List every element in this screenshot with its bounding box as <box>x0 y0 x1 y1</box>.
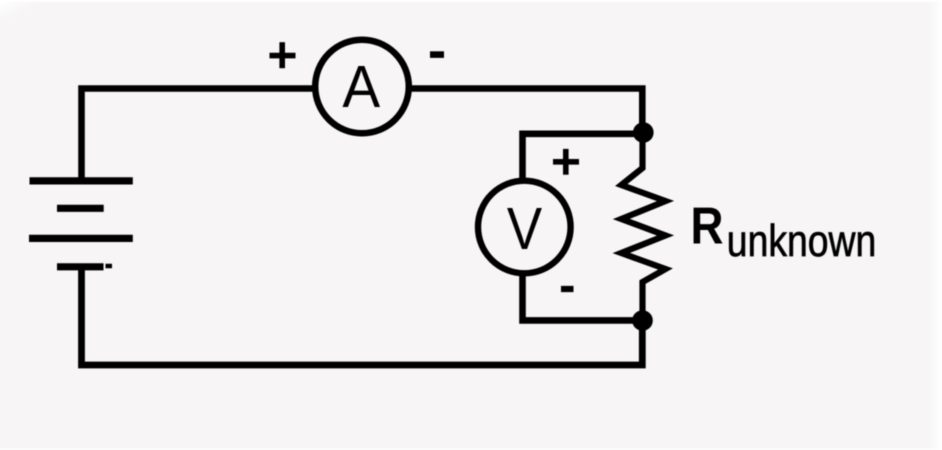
svg-text:R: R <box>691 197 724 255</box>
svg-text:A: A <box>342 54 380 121</box>
minus label ammeter right <box>430 51 444 58</box>
wire node A to voltmeter plus <box>523 134 643 179</box>
edge highlight bottom <box>0 448 942 450</box>
ammeter A1 <box>315 40 409 134</box>
svg-text:V: V <box>507 195 543 262</box>
node B junction dot (bottom) <box>632 310 653 331</box>
wire battery positive to ammeter (left vertical + top horizontal) <box>82 89 315 179</box>
plus label voltmeter top <box>553 149 579 175</box>
wire voltmeter minus to node B <box>523 275 643 320</box>
svg-text:unknown: unknown <box>727 217 877 266</box>
battery B1 plate 4 (short, negative) <box>57 263 104 270</box>
node A junction dot (top) <box>633 122 654 143</box>
edge highlight top <box>0 0 942 2</box>
wire ammeter to node A (top right corner) <box>410 89 642 131</box>
battery B1 plate 1 (long, positive) <box>30 177 133 184</box>
resistor R_unknown zigzag <box>621 132 665 320</box>
battery B1 plate 2 (short) <box>57 205 104 212</box>
plus label ammeter left <box>270 42 296 68</box>
voltmeter V1 <box>478 181 571 274</box>
edge highlight right <box>929 0 942 450</box>
minus tick at battery negative plate <box>106 264 113 269</box>
minus label voltmeter bottom <box>561 286 574 292</box>
top-left white corner patch <box>0 0 58 30</box>
battery B1 plate 3 (long) <box>29 235 133 242</box>
wire battery negative to bottom rail <box>82 269 643 365</box>
